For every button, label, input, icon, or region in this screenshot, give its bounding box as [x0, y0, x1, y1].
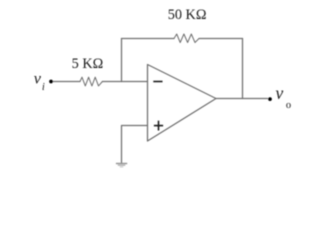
svg-text:v: v [34, 70, 42, 88]
svg-text:o: o [286, 100, 291, 111]
svg-text:5 KΩ: 5 KΩ [72, 56, 104, 72]
svg-text:v: v [276, 83, 284, 103]
svg-text:i: i [42, 82, 45, 93]
svg-text:50 KΩ: 50 KΩ [168, 7, 207, 23]
